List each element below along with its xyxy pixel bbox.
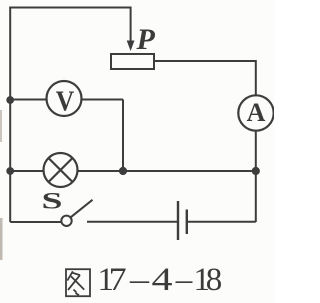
caption character 图 (drawn): [66, 269, 90, 296]
junction dot: left bus / voltmeter branch: [6, 96, 14, 104]
wire: top horizontal run to wiper: [9, 7, 130, 9]
wire: right bus lower (ammeter to bottom corner): [255, 131, 257, 223]
svg-text:7: 7: [109, 262, 127, 298]
faint scan streaks on left edge: [0, 110, 2, 142]
rheostat P body: [111, 54, 154, 69]
lamp (circle with X): [44, 153, 78, 187]
wire: lamp row horizontal: [10, 170, 256, 172]
ammeter A: [238, 95, 273, 130]
voltmeter V: [47, 81, 82, 118]
wire: bottom right segment battery to corner: [188, 221, 256, 223]
battery short plate (-): [186, 210, 188, 235]
svg-text:S: S: [42, 189, 63, 214]
wire: wiper arrow stem: [130, 7, 132, 43]
svg-text:P: P: [136, 23, 156, 56]
wire: voltmeter branch horizontal: [10, 99, 123, 101]
svg-text:4: 4: [152, 262, 173, 298]
wire: bottom left segment to switch: [10, 221, 61, 223]
junction dot: left bus / lamp row: [6, 167, 14, 175]
svg-text:–: –: [175, 262, 193, 298]
wire: rheostat right terminal run: [154, 60, 256, 62]
battery long plate (+): [177, 201, 179, 240]
wire: right bus upper (to ammeter): [255, 60, 257, 96]
svg-text:A: A: [247, 98, 266, 127]
junction dot: lamp row / right bus: [252, 167, 260, 175]
wiper arrowhead of rheostat P: [127, 41, 135, 52]
svg-text:V: V: [56, 86, 75, 118]
wire: bottom middle segment switch to battery: [87, 221, 177, 223]
switch S blade: [71, 200, 93, 217]
switch S pivot circle: [61, 216, 71, 226]
svg-text:18: 18: [194, 262, 223, 298]
junction dot: voltmeter branch / lamp row: [119, 167, 127, 175]
wire: voltmeter branch vertical drop: [122, 100, 124, 172]
wire: left vertical bus: [9, 8, 11, 223]
svg-text:–: –: [129, 262, 150, 298]
